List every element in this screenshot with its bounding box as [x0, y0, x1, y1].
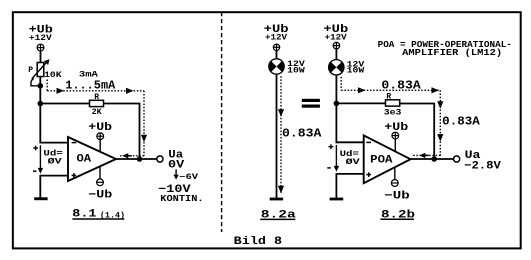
lamp La2 [329, 60, 344, 75]
flow arrow down (upper, 8.2a) [278, 109, 284, 117]
wire resistor to output node [104, 104, 140, 160]
op-amp negative supply terminal [97, 179, 104, 186]
wire −supply to op-amp bottom edge [99, 166, 101, 179]
wire supply to lamp (8.2b) [335, 49, 337, 60]
flow arrow right (second, 8.2b) [432, 87, 440, 93]
node: resistor branch [38, 101, 44, 107]
svg-text:R: R [386, 92, 391, 101]
current path dotted: across top [47, 90, 144, 92]
svg-text:+Ub: +Ub [384, 122, 408, 134]
flow arrow down (lower, 8.2b) [437, 134, 443, 142]
wire lamp to inverting corner (8.2b rail) [335, 75, 337, 143]
flow arrow down [141, 135, 147, 143]
wire non-inverting input to ground (8.2b) [335, 174, 337, 198]
svg-text:+12V: +12V [29, 34, 52, 43]
op-amp positive supply terminal [97, 133, 104, 140]
svg-text:10W: 10W [287, 67, 305, 76]
flow arrow right (second) [126, 88, 134, 94]
wire rail potentiometer to branch node [39, 77, 41, 104]
flow arrow down (upper, 8.2b) [437, 101, 443, 109]
polarity mark + (8.2b) [329, 146, 334, 148]
wire lamp to ground (8.2a) [276, 75, 278, 198]
current path dotted: down right (8.2b) [439, 90, 441, 156]
output terminal circle (8.2b) [454, 156, 460, 162]
lamp La1 [269, 59, 284, 74]
flow arrow left into op-amp output [122, 153, 128, 158]
output wire (8.2b) [411, 158, 454, 160]
wire to non-inverting input (8.2b) [336, 173, 364, 175]
flow arrow left into POA output [419, 153, 425, 158]
flow arrow down (lower, 8.2a) [278, 186, 284, 194]
wire +supply to op-amp top edge [99, 140, 101, 152]
svg-text:R: R [94, 93, 99, 102]
potentiometer wiper arrow [32, 63, 46, 79]
supply terminal circle-plus (8.2a) [273, 44, 279, 50]
svg-text:10W: 10W [347, 67, 365, 76]
wire supply to potentiometer [40, 51, 42, 63]
underline 8.2b [380, 218, 414, 220]
op-amp POA body [364, 135, 411, 183]
node: wiper junction [38, 83, 44, 89]
svg-text:+12V: +12V [325, 34, 347, 43]
wire resistor to output node (8.2b) [400, 104, 435, 160]
svg-text:10K: 10K [44, 71, 62, 80]
polarity mark + (Ud) [33, 147, 38, 149]
Ud voltage arrow [39, 145, 41, 169]
resistor R body (8.2b) [386, 100, 400, 106]
current path dotted: down right side [143, 91, 145, 156]
flow arrow right (first, 8.2b) [358, 87, 366, 93]
POA non-inverting pin mark [366, 174, 371, 176]
wire supply to lamp (8.2a) [276, 51, 278, 59]
underline 8.2a [260, 218, 295, 220]
POA positive supply terminal [392, 132, 399, 139]
wire rail node to inverting input corner [39, 104, 41, 144]
svg-text:AMPLIFIER (LM12): AMPLIFIER (LM12) [402, 48, 502, 58]
svg-text:0.83A: 0.83A [442, 115, 480, 129]
svg-text:0.83A: 0.83A [381, 78, 421, 92]
svg-text:+12V: +12V [265, 33, 287, 42]
svg-text:KONTIN.: KONTIN. [160, 194, 203, 204]
polarity mark − (8.2b) [327, 167, 331, 169]
svg-text:3e3: 3e3 [384, 108, 402, 117]
current path dotted: into output node (8.2b) [412, 154, 441, 156]
panel divider dashed line [221, 12, 223, 232]
equals sign [302, 99, 320, 108]
supply terminal circle-plus (8.2b) [333, 42, 340, 49]
op-amp OA body [68, 137, 116, 181]
svg-text:P: P [28, 66, 33, 75]
resistor R body [90, 100, 104, 106]
node: output junction (8.2b) [431, 156, 437, 162]
underline 8.1 (1.4) [72, 218, 124, 220]
arrow to -6V [175, 169, 177, 175]
flow arrow right (first) [57, 88, 65, 94]
POA inverting pin mark [366, 141, 371, 143]
svg-text:−2.8V: −2.8V [464, 161, 501, 173]
svg-text:OA: OA [77, 154, 92, 166]
ground (left panel) [34, 197, 47, 200]
svg-text:+Ub: +Ub [88, 122, 112, 134]
polarity mark − (Ud) [33, 170, 37, 172]
ground (8.2b) [330, 198, 344, 201]
ground (8.2a) [270, 198, 283, 201]
op-amp inverting pin mark [72, 142, 77, 144]
op-amp non-inverting pin mark [72, 174, 77, 176]
current path dotted: lamp down (8.2b) [340, 77, 342, 91]
wire non-inverting input to ground [39, 176, 41, 198]
wire to inverting input [40, 142, 69, 144]
output terminal circle [157, 156, 163, 162]
svg-text:2K: 2K [92, 108, 102, 117]
supply terminal circle-plus [37, 44, 44, 51]
POA negative supply terminal [391, 180, 398, 187]
wire −supply to POA bottom edge [394, 167, 396, 179]
current path dotted: across top (8.2b) [341, 89, 440, 91]
node: resistor branch (8.2b) [334, 101, 340, 107]
svg-text:ØV: ØV [48, 158, 62, 167]
node: output junction [137, 156, 143, 162]
svg-text:−Ub: −Ub [88, 190, 112, 202]
output wire [116, 158, 157, 160]
svg-text:POA: POA [370, 155, 393, 167]
wire branch node to resistor [40, 103, 89, 105]
svg-text:0.83A: 0.83A [282, 127, 322, 141]
current path dotted: wiper down [46, 80, 48, 91]
wire branch node to resistor (8.2b) [336, 102, 385, 104]
current path dotted: into output node [119, 155, 145, 157]
svg-text:ØV: ØV [346, 158, 360, 167]
wiper return wire [31, 78, 38, 85]
wire to inverting input (8.2b) [336, 141, 364, 143]
potentiometer P 10K body [37, 63, 44, 77]
wire to non-inverting input [40, 175, 69, 177]
svg-text:−Ub: −Ub [384, 190, 410, 202]
svg-text:−6V: −6V [179, 173, 198, 182]
wire +supply to POA top edge [394, 139, 396, 152]
Ud voltage arrow (8.2b) [335, 145, 337, 167]
svg-text:Bild 8: Bild 8 [234, 236, 283, 248]
current path dotted (8.2a) [280, 76, 282, 194]
